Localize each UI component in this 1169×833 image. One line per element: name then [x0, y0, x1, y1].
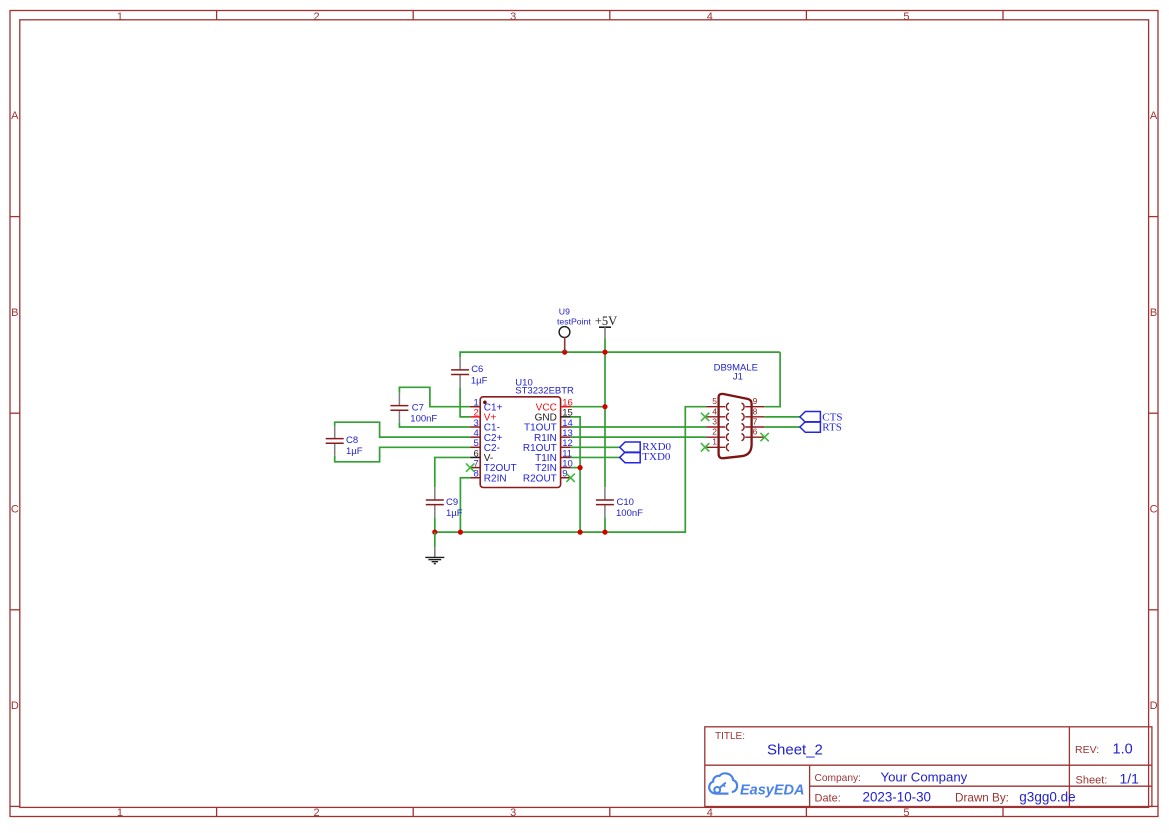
- svg-text:B: B: [1150, 307, 1157, 319]
- J1 pin 2: [706, 427, 729, 441]
- svg-text:Sheet_2: Sheet_2: [767, 742, 823, 759]
- svg-text:g3gg0.de: g3gg0.de: [1019, 790, 1075, 805]
- J1 pin 4: [706, 406, 729, 420]
- svg-text:C10: C10: [617, 497, 634, 508]
- svg-text:+5V: +5V: [595, 314, 617, 328]
- junction R2IN-gnd: [458, 530, 463, 535]
- J1 pin 6: [742, 427, 765, 441]
- wire U10 pin 4 C2+ to C8 top: [335, 422, 471, 437]
- svg-text:2: 2: [314, 11, 320, 23]
- U10 pin 4 C2+: [470, 428, 502, 444]
- net flag CTS: [800, 411, 843, 423]
- svg-text:9: 9: [753, 396, 758, 406]
- svg-text:2: 2: [314, 807, 320, 819]
- junction GND-rail: [578, 530, 583, 535]
- svg-text:REV:: REV:: [1075, 744, 1099, 756]
- svg-text:C8: C8: [346, 435, 358, 446]
- label C7 100nF: [410, 402, 437, 424]
- svg-text:3: 3: [510, 11, 516, 23]
- wire U10 pin 6 V- to C9 top: [435, 457, 470, 487]
- svg-text:Drawn By:: Drawn By:: [955, 791, 1009, 804]
- capacitor C10: [596, 487, 614, 517]
- svg-text:5: 5: [712, 396, 717, 406]
- wire U10 pin 3 C1- to C7 bottom: [399, 423, 470, 427]
- svg-text:Company:: Company:: [815, 773, 861, 784]
- J1 pin 5: [706, 396, 729, 410]
- label C8 1uF: [346, 435, 363, 457]
- wire right drop to DB9 pin 9: [764, 352, 780, 407]
- svg-text:2023-10-30: 2023-10-30: [863, 790, 932, 805]
- wire U10 pin 13 R1IN to DB9 pin 2: [571, 436, 707, 438]
- wire U10 pin 16 VCC to +5V net: [571, 406, 605, 408]
- wire ground rail to DB9 pin 5: [435, 407, 707, 532]
- op-amp U10 ST3232EBTR body: [480, 397, 560, 488]
- label C9 1uF: [446, 497, 463, 519]
- svg-text:TXD0: TXD0: [642, 451, 671, 463]
- U10 pin 13 R1IN: [534, 428, 573, 444]
- svg-text:1: 1: [117, 11, 123, 23]
- U10 pin 8 R2IN: [470, 469, 506, 485]
- svg-text:3: 3: [510, 807, 516, 819]
- capacitor C8: [326, 426, 344, 456]
- junction C9-gnd: [432, 530, 437, 535]
- svg-text:RTS: RTS: [822, 422, 842, 434]
- no-connect X on J1 pin 4: [701, 413, 709, 421]
- svg-text:6: 6: [753, 427, 758, 437]
- wire U10 pin 8 R2IN to ground rail: [460, 478, 470, 532]
- wire U10 pin 5 C2- to C8 bottom: [335, 447, 471, 462]
- junction C10-gnd: [602, 530, 607, 535]
- svg-text:TITLE:: TITLE:: [715, 731, 745, 742]
- wire +5V top rail from C6 to right corner: [460, 352, 780, 357]
- power flag +5V: [595, 314, 617, 338]
- svg-text:C6: C6: [471, 364, 483, 375]
- svg-text:3: 3: [712, 416, 717, 426]
- svg-text:C: C: [11, 504, 19, 516]
- svg-text:1: 1: [712, 437, 717, 447]
- connector J1 DB9MALE body: [719, 394, 752, 458]
- svg-text:4: 4: [712, 406, 717, 416]
- U10 pin 10 T2IN: [535, 458, 573, 474]
- U10 pin 7 T2OUT: [470, 458, 516, 474]
- no-connect X on U10 pin 7: [466, 463, 474, 471]
- U10 pin 9 R2OUT: [523, 469, 571, 485]
- svg-text:100nF: 100nF: [410, 413, 437, 424]
- svg-text:100nF: 100nF: [616, 508, 643, 519]
- wire C10 bottom to ground rail: [604, 517, 606, 532]
- svg-text:Sheet:: Sheet:: [1076, 774, 1108, 786]
- U10 pin 16 VCC: [536, 398, 573, 414]
- svg-text:A: A: [11, 110, 19, 122]
- svg-text:R2IN: R2IN: [484, 473, 507, 484]
- U10 pin 12 R1OUT: [523, 438, 573, 454]
- J1 pin 9: [742, 396, 765, 410]
- label C6 1uF: [471, 364, 488, 387]
- svg-text:R2OUT: R2OUT: [523, 473, 557, 484]
- EasyEDA logo: [709, 773, 804, 798]
- wire U10 pin 11 T1IN to TXD0 flag: [571, 456, 620, 458]
- wire U10 pin 14 T1OUT to DB9 pin 3: [571, 426, 707, 428]
- svg-text:D: D: [11, 700, 19, 712]
- junction T2IN-GND: [578, 465, 583, 470]
- J1 pin 3: [706, 416, 729, 430]
- svg-text:8: 8: [753, 406, 758, 416]
- svg-text:C: C: [1150, 504, 1158, 516]
- svg-text:A: A: [1150, 110, 1158, 122]
- label C10 100nF: [616, 497, 643, 519]
- U10 pin 1 C1+: [470, 398, 502, 414]
- svg-text:U9: U9: [559, 306, 570, 316]
- svg-text:4: 4: [707, 807, 713, 819]
- wire U10 pin 2 V+ to C6 bottom: [460, 387, 470, 417]
- svg-text:Date:: Date:: [815, 792, 841, 804]
- J1 pin 1: [706, 437, 729, 451]
- U10 pin 11 T1IN: [535, 448, 572, 464]
- U10 pin 5 C2-: [470, 438, 500, 454]
- net flag RXD0: [620, 441, 672, 453]
- label U10 ST3232EBTR: [515, 378, 574, 397]
- svg-text:2: 2: [712, 427, 717, 437]
- wire DB9 pin 8 to CTS flag: [764, 416, 800, 418]
- U10 pin 3 C1-: [470, 418, 500, 434]
- svg-text:5: 5: [903, 807, 909, 819]
- capacitor C6: [451, 357, 469, 387]
- wire U10 pin 12 R1OUT to RXD0 flag: [571, 446, 620, 448]
- ground: [425, 532, 444, 564]
- svg-text:B: B: [11, 307, 18, 319]
- junction VCC: [602, 404, 607, 409]
- no-connect X on J1 pin 6: [760, 433, 768, 441]
- svg-text:C7: C7: [412, 402, 424, 413]
- svg-text:C9: C9: [446, 497, 458, 508]
- svg-text:8: 8: [474, 469, 479, 480]
- test point U9: [559, 327, 570, 353]
- no-connect X on J1 pin 1: [701, 443, 709, 451]
- wire +5V vertical through C10 top: [604, 339, 606, 488]
- svg-text:1/1: 1/1: [1120, 771, 1140, 787]
- pin 1 marker dot: [483, 401, 487, 405]
- svg-text:1µF: 1µF: [471, 375, 488, 386]
- U10 pin 2 V+: [470, 408, 496, 424]
- wire C9 bottom to ground rail: [434, 517, 436, 532]
- svg-text:testPoint: testPoint: [557, 317, 591, 327]
- junction +5V-rail: [602, 350, 607, 355]
- U10 pin 6 V-: [470, 448, 493, 464]
- svg-text:4: 4: [707, 11, 713, 23]
- J1 pin 8: [742, 406, 765, 420]
- wire DB9 pin 7 to RTS flag: [764, 426, 800, 428]
- svg-text:ST3232EBTR: ST3232EBTR: [515, 386, 574, 397]
- J1 pin 7: [742, 416, 765, 430]
- junction testpoint-rail: [562, 350, 567, 355]
- net flag TXD0: [620, 451, 671, 463]
- label U9 testPoint: [557, 306, 591, 326]
- capacitor C7: [390, 393, 408, 423]
- svg-text:J1: J1: [733, 372, 743, 383]
- svg-text:EasyEDA: EasyEDA: [740, 783, 804, 799]
- svg-text:7: 7: [753, 416, 758, 426]
- svg-text:D: D: [1150, 700, 1158, 712]
- svg-text:1.0: 1.0: [1113, 742, 1133, 758]
- U10 pin 14 T1OUT: [524, 418, 573, 434]
- net flag RTS: [800, 422, 842, 434]
- label J1 DB9MALE: [714, 363, 758, 383]
- svg-text:1µF: 1µF: [446, 508, 463, 519]
- svg-text:1µF: 1µF: [346, 446, 363, 457]
- title block: [705, 727, 1152, 807]
- wire U10 pin 15 GND down to ground rail: [571, 417, 581, 532]
- wire U10 pin 1 C1+ to C7 top: [399, 387, 470, 406]
- svg-text:Your Company: Your Company: [881, 770, 968, 785]
- capacitor C9: [426, 487, 444, 517]
- wire U10 pin 10 T2IN to GND net: [571, 467, 581, 469]
- U10 pin 15 GND: [535, 408, 573, 424]
- no-connect X on U10 pin 9: [566, 474, 574, 482]
- svg-text:5: 5: [903, 11, 909, 23]
- svg-text:1: 1: [117, 807, 123, 819]
